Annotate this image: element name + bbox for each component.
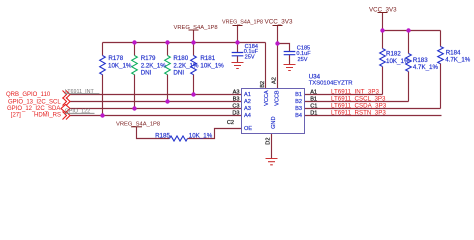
svg-text:TXS0104EYZTR: TXS0104EYZTR — [309, 81, 353, 87]
svg-text:R182: R182 — [386, 51, 401, 58]
svg-text:B1: B1 — [310, 97, 317, 103]
svg-text:VCCB: VCCB — [274, 90, 280, 106]
svg-text:D2: D2 — [265, 138, 271, 145]
svg-text:[27]: [27] — [11, 113, 21, 119]
svg-text:VREG_S4A_1P8: VREG_S4A_1P8 — [174, 25, 218, 31]
svg-text:A1: A1 — [310, 90, 317, 96]
svg-text:LT6911_CSDA_3P3: LT6911_CSDA_3P3 — [331, 102, 387, 109]
svg-text:A3: A3 — [244, 106, 251, 112]
svg-text:LT6911_CSCL_3P3: LT6911_CSCL_3P3 — [331, 95, 386, 102]
svg-text:OE: OE — [244, 126, 252, 132]
svg-text:C3: C3 — [232, 104, 239, 110]
svg-text:R185: R185 — [155, 133, 170, 140]
svg-text:R179: R179 — [141, 55, 156, 62]
svg-text:B3: B3 — [295, 106, 302, 112]
svg-text:LT6911_INT_3P3: LT6911_INT_3P3 — [331, 88, 379, 95]
svg-text:U34: U34 — [309, 74, 321, 81]
svg-text:VREG_S4A_1P8: VREG_S4A_1P8 — [222, 20, 263, 26]
svg-text:4.7K_1%: 4.7K_1% — [445, 57, 471, 64]
svg-text:GPIO_13_I2C_SCL: GPIO_13_I2C_SCL — [8, 99, 61, 105]
svg-text:B4: B4 — [295, 113, 302, 119]
svg-text:10K_1%: 10K_1% — [386, 58, 410, 65]
svg-text:C1: C1 — [310, 104, 317, 110]
svg-text:GPIO_12_I2C_SDA: GPIO_12_I2C_SDA — [7, 106, 60, 112]
svg-text:B2: B2 — [295, 99, 302, 105]
svg-text:VCC_3V3: VCC_3V3 — [369, 6, 397, 13]
svg-text:10K_1%: 10K_1% — [108, 62, 132, 69]
svg-text:10K_1%: 10K_1% — [189, 133, 213, 140]
svg-text:10K_1%: 10K_1% — [200, 62, 224, 69]
svg-text:B2: B2 — [260, 81, 266, 88]
svg-text:B3: B3 — [233, 97, 240, 103]
svg-text:D1: D1 — [310, 111, 317, 117]
svg-text:2.2K_1%: 2.2K_1% — [141, 62, 167, 69]
svg-text:R183: R183 — [413, 57, 428, 64]
svg-text:A3: A3 — [233, 90, 240, 96]
svg-text:QRB_GPIO_110: QRB_GPIO_110 — [6, 92, 51, 98]
svg-text:C2: C2 — [227, 120, 234, 126]
svg-text:25V: 25V — [298, 57, 308, 63]
svg-text:LT6911_RSTN_3P3: LT6911_RSTN_3P3 — [331, 109, 386, 116]
svg-text:R178: R178 — [108, 55, 123, 62]
svg-text:DNI: DNI — [141, 70, 152, 77]
svg-text:2.2K_1%: 2.2K_1% — [173, 62, 199, 69]
svg-text:B1: B1 — [295, 92, 302, 98]
svg-text:A4: A4 — [244, 113, 251, 119]
svg-text:25V: 25V — [245, 55, 255, 61]
svg-text:GND: GND — [271, 116, 277, 128]
svg-text:DNI: DNI — [173, 70, 184, 77]
svg-text:A2: A2 — [271, 77, 277, 84]
svg-text:VCCA: VCCA — [264, 90, 270, 106]
svg-text:4.7K_1%: 4.7K_1% — [413, 64, 439, 71]
svg-text:A2: A2 — [244, 99, 251, 105]
svg-text:A1: A1 — [244, 92, 251, 98]
svg-text:D3: D3 — [232, 111, 239, 117]
svg-text:VREG_S4A_1P8: VREG_S4A_1P8 — [116, 122, 160, 128]
svg-text:VCC_3V3: VCC_3V3 — [265, 19, 293, 26]
svg-text:R180: R180 — [173, 55, 188, 62]
svg-text:HDMI_RS: HDMI_RS — [34, 113, 61, 119]
svg-text:R181: R181 — [200, 55, 215, 62]
